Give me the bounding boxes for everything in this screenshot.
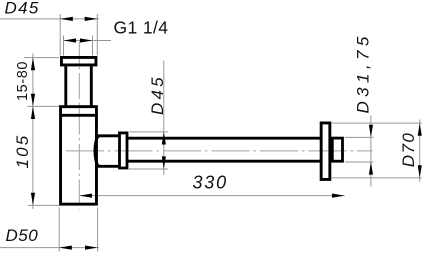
outlet nut	[120, 133, 128, 168]
dimension D31,75: upper arrow pointing down	[369, 125, 373, 138]
svg-text:D45: D45	[148, 74, 167, 115]
dimension D50: left extension line	[58, 208, 60, 252]
wall pipe end stub	[332, 138, 342, 161]
svg-text:D70: D70	[399, 132, 418, 168]
dimension G1 1/4: left arrow	[64, 38, 77, 42]
svg-text:D50: D50	[6, 226, 39, 245]
dimension D70: up arrow	[418, 123, 422, 136]
centerline horizontal of outlet pipe	[66, 150, 373, 152]
svg-text:330: 330	[193, 173, 228, 193]
dimension D45 top: right arrow	[85, 17, 98, 21]
svg-text:D31,75: D31,75	[354, 32, 373, 113]
dimension D50: right arrow	[85, 246, 98, 250]
dimension D70: down arrow	[418, 165, 422, 178]
trap cup ring line	[59, 114, 97, 117]
dimension 330: left arrow	[79, 194, 92, 198]
dimension D45 middle (nut): vertical dim line	[163, 61, 165, 176]
outlet pipe bottom line	[127, 160, 321, 163]
dimension G1 1/4: left extension line	[63, 36, 65, 56]
trap inlet flange (top)	[61, 57, 95, 64]
dimension D45 top: dim line	[0, 18, 99, 20]
dimension G1 1/4: dim line	[64, 40, 112, 42]
centerline vertical of trap body	[78, 42, 80, 210]
trap inlet pipe left wall	[64, 66, 67, 105]
dimension D50: dim line	[0, 247, 99, 249]
dimension 105: bottom extension line	[28, 204, 60, 206]
svg-text:105: 105	[13, 134, 32, 169]
dimension D45 top: left arrow	[60, 17, 73, 21]
dimension 105: down arrow	[31, 193, 35, 206]
trap inlet pipe right wall	[90, 66, 93, 105]
dimension 15-80 / 105: middle extension line	[27, 105, 59, 107]
outlet stub curved end	[95, 136, 99, 167]
dimension 105: up arrow	[31, 106, 35, 119]
dimension 15-80: down arrow	[31, 94, 35, 107]
dimension D70: bottom extension line	[332, 177, 422, 179]
dimension D45 middle: down arrow	[162, 156, 166, 169]
dimension D45 middle: bottom extension line	[129, 168, 168, 170]
dimension 15-80: top extension line	[24, 57, 60, 59]
trap cup body	[61, 107, 97, 204]
svg-text:15-80: 15-80	[15, 61, 31, 101]
dimension G1 1/4: right arrow	[80, 38, 93, 42]
dimension D31,75: top extension line	[345, 136, 374, 138]
dimension D70: vertical dim line	[419, 120, 421, 182]
outlet stub bottom line	[98, 165, 119, 168]
outlet pipe top line	[127, 137, 321, 140]
dimension 15-80 and 105: shared vertical dim line	[32, 54, 34, 210]
dimension D50: left arrow	[59, 246, 72, 250]
outlet stub top line	[98, 134, 119, 137]
dimension D31,75: vertical dim line	[370, 116, 372, 187]
dimension D31,75: lower arrow pointing up	[369, 162, 373, 175]
dimension D70: top extension line	[332, 122, 422, 124]
dimension D45 middle: up arrow	[162, 132, 166, 145]
dimension D45 top: right extension line	[96, 14, 98, 56]
dimension D31,75: bottom extension line	[345, 161, 374, 163]
dimension 330: dim line	[79, 195, 344, 197]
dimension 15-80: up arrow	[31, 58, 35, 71]
wall flange	[321, 123, 330, 180]
dimension D45 top: left extension line	[59, 14, 61, 56]
svg-text:D45: D45	[5, 0, 40, 18]
dimension D45 middle: top extension line	[130, 131, 168, 133]
dimension G1 1/4: right extension line	[92, 36, 94, 56]
dimension D50: right extension line	[97, 208, 99, 252]
svg-text:G1 1/4: G1 1/4	[114, 18, 169, 38]
dimension 330: right arrow	[332, 194, 345, 198]
